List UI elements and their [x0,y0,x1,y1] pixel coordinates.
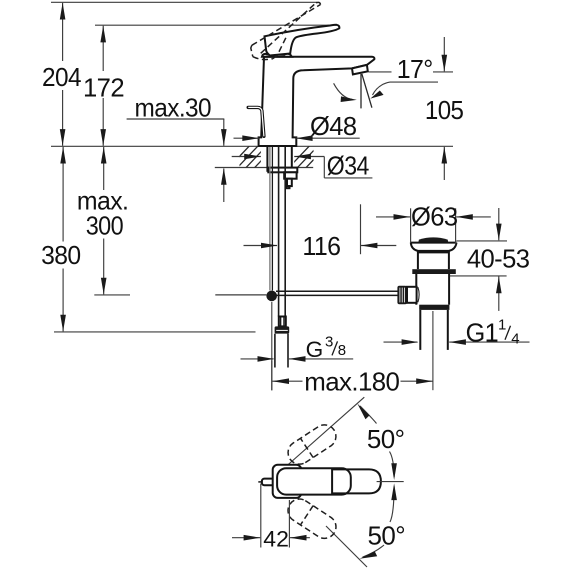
drain plug top [418,237,448,242]
grip plan fill [332,469,381,493]
drain centre extension line [432,311,434,390]
compression nut (G 3/8) [275,326,290,333]
handle escutcheon cap [262,54,292,57]
17 deg leader with arrow [373,82,439,95]
50deg upper leaders [360,406,377,424]
tailpiece separation ring [419,305,449,310]
dashed handle rotated up [288,425,336,464]
counter bottom line [215,167,313,169]
svg-text:42: 42 [263,526,289,551]
supply pipe connector [279,317,286,327]
thin rod left segment [215,294,266,296]
lower radial line 50deg [326,526,367,567]
rod guide bracket steps [284,172,296,178]
shank through counter [266,146,268,172]
drain lower body [415,274,417,305]
horizontal pop-up rod to drain [276,290,398,292]
svg-text:Ø48: Ø48 [310,111,357,141]
svg-text:G1: G1 [466,318,499,348]
drain flange [411,242,457,244]
svg-text:Ø34: Ø34 [327,151,369,181]
top extension line 204 level [51,1,317,3]
svg-text:204: 204 [42,62,81,92]
svg-text:3: 3 [325,333,333,350]
svg-text:50°: 50° [368,520,406,550]
rod socket bulge [418,287,419,302]
supply pipe lines [278,147,280,317]
svg-text:105: 105 [425,95,464,125]
dimension 172 [102,26,104,71]
ball junction of pop-up rod [266,291,277,302]
grip plan outline [332,469,381,493]
handle base plan outline [277,468,351,494]
drain upper body [417,251,419,269]
svg-text:300: 300 [86,211,124,241]
rotation arc arrow [334,83,353,99]
knob collar cylinder [407,287,417,303]
pop-up rod knob at back [248,107,264,136]
dimension max.300 [103,147,105,190]
pop-up rod tube lines [269,147,271,291]
drain tailpiece [419,310,421,350]
knurled adjustment knob [397,286,407,304]
dashed lever edge upper [252,5,321,46]
380 bottom extension line [54,331,256,333]
locknut [268,168,297,173]
dashed tip curl [316,2,321,4]
extension line from ball to max180 [271,302,273,390]
svg-text:172: 172 [83,72,124,102]
svg-text:1: 1 [498,317,506,334]
dashed handle rotated down [288,499,336,538]
svg-text:max.180: max.180 [304,367,399,397]
counter hatching [228,145,327,168]
upper radial line 50deg [286,397,364,466]
O-ring seal band [412,269,456,274]
dimension 204 [62,3,64,61]
17 degree reference lines [360,74,362,109]
mounting surface line [51,145,453,147]
pop-up rod stub (plan) [258,481,262,483]
dimension 42 [260,484,262,548]
svg-text:Ø63: Ø63 [411,202,458,232]
handle lever [265,25,340,56]
escutcheon plan [273,465,302,498]
handle base plan fill [277,468,351,494]
svg-text:116: 116 [302,231,340,261]
svg-text:40-53: 40-53 [467,244,530,274]
svg-text:50°: 50° [367,424,405,454]
dashed handle block [251,45,253,56]
dimension 380 [62,147,64,242]
spout aerator [352,65,368,75]
supply pipe lower section [274,334,276,368]
extension line 172 level [95,24,337,26]
faucet body and spout outline [259,57,375,146]
svg-text:4: 4 [511,330,519,347]
max300 bottom extension line [94,294,130,296]
dashed lever edge lower [261,3,316,54]
svg-text:380: 380 [41,240,81,270]
svg-text:8: 8 [338,342,346,359]
50deg lower leaders [390,487,394,523]
svg-text:17°: 17° [397,54,433,84]
svg-text:max.30: max.30 [135,92,212,122]
centreline at grip tip [377,481,404,483]
svg-text:G: G [306,337,323,362]
